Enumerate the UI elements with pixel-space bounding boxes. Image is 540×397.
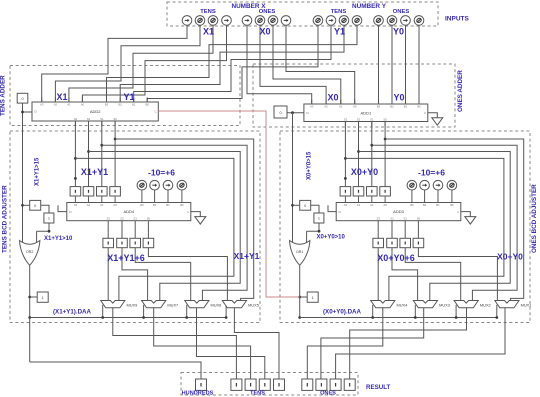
svg-text:C: C bbox=[187, 210, 189, 214]
svg-text:B3: B3 bbox=[105, 103, 109, 107]
svg-text:X1+Y1>15: X1+Y1>15 bbox=[35, 157, 41, 186]
svg-text:0: 0 bbox=[304, 204, 306, 208]
svg-text:A0: A0 bbox=[383, 203, 387, 207]
svg-text:B1: B1 bbox=[132, 103, 136, 107]
svg-text:TENS ADDER: TENS ADDER bbox=[0, 75, 7, 116]
svg-text:ADD4: ADD4 bbox=[123, 209, 134, 214]
svg-text:B0: B0 bbox=[417, 105, 421, 109]
svg-text:CI: CI bbox=[338, 210, 341, 214]
svg-text:1: 1 bbox=[312, 296, 314, 300]
svg-text:S0: S0 bbox=[417, 217, 421, 221]
svg-text:B0: B0 bbox=[180, 203, 184, 207]
svg-text:A1: A1 bbox=[370, 203, 374, 207]
svg-text:CI: CI bbox=[306, 111, 309, 115]
svg-text:0: 0 bbox=[34, 204, 36, 208]
svg-text:X0+Y0+6: X0+Y0+6 bbox=[377, 253, 415, 263]
svg-text:-10=+6: -10=+6 bbox=[148, 168, 175, 178]
svg-text:Y0: Y0 bbox=[393, 27, 404, 37]
svg-text:B3: B3 bbox=[377, 105, 381, 109]
svg-text:Y1: Y1 bbox=[334, 27, 345, 37]
svg-text:MUX7: MUX7 bbox=[167, 303, 178, 308]
svg-text:TENS: TENS bbox=[200, 9, 216, 15]
svg-text:A1: A1 bbox=[339, 105, 343, 109]
svg-text:X0: X0 bbox=[259, 27, 270, 37]
svg-text:1: 1 bbox=[42, 296, 44, 300]
svg-text:X1+Y1: X1+Y1 bbox=[234, 251, 260, 261]
svg-text:X1+Y1: X1+Y1 bbox=[81, 167, 108, 177]
svg-text:X0: X0 bbox=[327, 93, 338, 103]
svg-text:MUX9: MUX9 bbox=[127, 303, 138, 308]
svg-text:B2: B2 bbox=[390, 105, 394, 109]
svg-text:X1+Y1>10: X1+Y1>10 bbox=[44, 236, 73, 242]
svg-text:MUX2: MUX2 bbox=[480, 303, 491, 308]
svg-text:TENS: TENS bbox=[250, 391, 265, 397]
svg-text:X0+Y0>10: X0+Y0>10 bbox=[317, 235, 346, 241]
svg-text:S0: S0 bbox=[147, 217, 151, 221]
svg-text:CI: CI bbox=[34, 110, 37, 114]
svg-text:S1: S1 bbox=[403, 217, 407, 221]
svg-text:S3: S3 bbox=[74, 117, 78, 121]
svg-text:A3: A3 bbox=[74, 203, 78, 207]
svg-text:Y0: Y0 bbox=[393, 93, 404, 103]
svg-text:0: 0 bbox=[279, 111, 281, 115]
svg-text:A3: A3 bbox=[310, 105, 314, 109]
svg-text:S1: S1 bbox=[370, 117, 374, 121]
svg-text:MUX1: MUX1 bbox=[521, 303, 532, 308]
svg-text:C: C bbox=[154, 110, 156, 114]
svg-text:ONES ADDER: ONES ADDER bbox=[457, 70, 464, 112]
svg-text:HUNDREDS: HUNDREDS bbox=[182, 391, 214, 397]
svg-text:S2: S2 bbox=[357, 117, 361, 121]
svg-text:S2: S2 bbox=[120, 217, 124, 221]
svg-text:ONES BCD ADJUSTER: ONES BCD ADJUSTER bbox=[531, 184, 538, 253]
svg-text:Y1: Y1 bbox=[123, 92, 134, 102]
svg-text:MUX5: MUX5 bbox=[248, 303, 259, 308]
svg-text:X0+Y0: X0+Y0 bbox=[497, 252, 523, 262]
svg-text:TENS: TENS bbox=[331, 9, 347, 15]
svg-text:TENS BCD ADJUSTER: TENS BCD ADJUSTER bbox=[2, 185, 9, 253]
svg-text:A0: A0 bbox=[353, 105, 357, 109]
svg-text:0: 0 bbox=[21, 97, 23, 101]
svg-text:B0: B0 bbox=[450, 203, 454, 207]
svg-text:ADD1: ADD1 bbox=[361, 110, 372, 115]
svg-text:B2: B2 bbox=[153, 203, 157, 207]
svg-text:B3: B3 bbox=[410, 203, 414, 207]
svg-text:1: 1 bbox=[48, 217, 50, 221]
svg-text:OR1: OR1 bbox=[296, 250, 303, 254]
svg-text:A3: A3 bbox=[40, 103, 44, 107]
svg-text:A1: A1 bbox=[67, 103, 71, 107]
svg-text:X1: X1 bbox=[203, 27, 214, 37]
svg-text:C: C bbox=[457, 210, 459, 214]
svg-text:S2: S2 bbox=[87, 117, 91, 121]
svg-text:B2: B2 bbox=[423, 203, 427, 207]
svg-text:A2: A2 bbox=[87, 203, 91, 207]
svg-text:MUX3: MUX3 bbox=[439, 303, 450, 308]
svg-text:-10=+6: -10=+6 bbox=[418, 168, 445, 178]
svg-text:CI: CI bbox=[69, 210, 72, 214]
svg-text:S0: S0 bbox=[383, 117, 387, 121]
svg-text:INPUTS: INPUTS bbox=[445, 16, 470, 23]
svg-text:A2: A2 bbox=[324, 105, 328, 109]
svg-text:ADD2: ADD2 bbox=[90, 109, 101, 114]
svg-text:B0: B0 bbox=[145, 103, 149, 107]
svg-text:A1: A1 bbox=[100, 203, 104, 207]
svg-text:1: 1 bbox=[318, 217, 320, 221]
svg-text:A2: A2 bbox=[54, 103, 58, 107]
svg-text:(X1+Y1).DAA: (X1+Y1).DAA bbox=[53, 309, 92, 316]
svg-text:B1: B1 bbox=[404, 105, 408, 109]
svg-text:MUX8: MUX8 bbox=[211, 303, 222, 308]
svg-text:A2: A2 bbox=[357, 203, 361, 207]
svg-text:NUMBER Y: NUMBER Y bbox=[352, 3, 387, 10]
svg-text:S1: S1 bbox=[133, 217, 137, 221]
svg-text:MUX4: MUX4 bbox=[397, 303, 409, 308]
svg-text:A3: A3 bbox=[344, 203, 348, 207]
svg-text:B1: B1 bbox=[166, 203, 170, 207]
svg-text:S1: S1 bbox=[100, 117, 104, 121]
svg-text:A0: A0 bbox=[113, 203, 117, 207]
svg-text:ONES: ONES bbox=[320, 391, 336, 397]
svg-text:OR2: OR2 bbox=[26, 250, 33, 254]
svg-text:S2: S2 bbox=[390, 217, 394, 221]
svg-text:X0+Y0: X0+Y0 bbox=[351, 167, 378, 177]
svg-text:S3: S3 bbox=[376, 217, 380, 221]
svg-text:ONES: ONES bbox=[259, 9, 276, 15]
svg-text:X1: X1 bbox=[56, 92, 67, 102]
svg-text:ADD3: ADD3 bbox=[393, 209, 404, 214]
svg-text:S3: S3 bbox=[344, 117, 348, 121]
svg-text:A0: A0 bbox=[81, 103, 85, 107]
svg-text:B2: B2 bbox=[118, 103, 122, 107]
svg-text:RESULT: RESULT bbox=[366, 384, 391, 391]
svg-text:B1: B1 bbox=[436, 203, 440, 207]
svg-text:ONES: ONES bbox=[393, 9, 410, 15]
svg-text:X0+Y0>15: X0+Y0>15 bbox=[307, 151, 313, 180]
svg-text:X1+Y1+6: X1+Y1+6 bbox=[107, 253, 145, 263]
svg-text:(X0+Y0).DAA: (X0+Y0).DAA bbox=[323, 309, 362, 316]
svg-text:B3: B3 bbox=[140, 203, 144, 207]
svg-text:S3: S3 bbox=[106, 217, 110, 221]
svg-text:S0: S0 bbox=[113, 117, 117, 121]
svg-text:C: C bbox=[424, 111, 426, 115]
